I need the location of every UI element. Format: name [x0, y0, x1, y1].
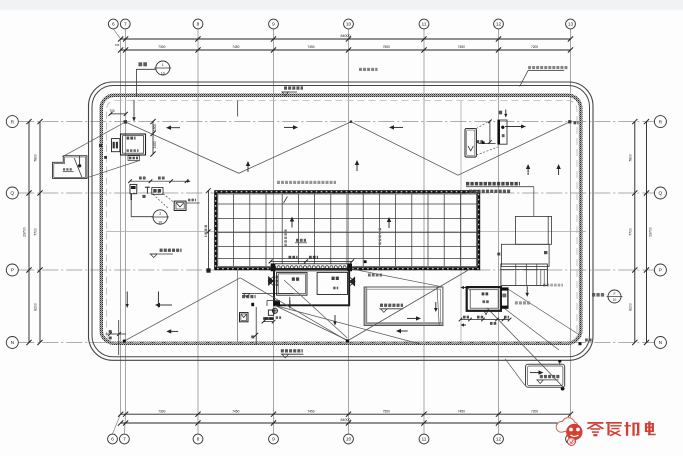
mid horizontal joint line: [106, 231, 586, 233]
grid bubble 7 top: [120, 19, 130, 29]
room labels: [276, 276, 339, 290]
detached rect arrow: [530, 372, 539, 374]
grid bubble 11 bottom: [419, 434, 429, 444]
elevation 6.550 top: [284, 86, 287, 89]
svg-text:2: 2: [159, 212, 161, 216]
svg-text:7700: 7700: [629, 228, 633, 236]
watermark text: [587, 421, 655, 436]
callout circle top-left: [154, 61, 171, 76]
callout leader top-left: [136, 69, 155, 96]
grid bubble 10 bottom: [344, 434, 354, 444]
bottom ridge left: [124, 278, 240, 341]
svg-text:7450: 7450: [307, 409, 314, 413]
detached cooling rect: [526, 364, 565, 387]
svg-text:12: 12: [496, 22, 502, 28]
top center note: [359, 68, 362, 71]
diagonal upper room SE: [508, 289, 578, 334]
equip text right: [543, 284, 546, 287]
bottom left dim: [106, 320, 127, 355]
svg-text:6: 6: [111, 437, 114, 443]
grid bubble Q left: [6, 187, 18, 199]
small text above water tank: [368, 274, 371, 277]
building outline second: [92, 86, 590, 357]
fan line from room corner 2: [275, 306, 349, 342]
leader arrow down near grid7: [133, 100, 135, 117]
down arrow x335: [334, 315, 336, 322]
junction dot bottom-right: [579, 342, 582, 345]
skylight note 1:50: [295, 239, 307, 243]
svg-text:F: F: [613, 292, 615, 296]
grid bubble N left: [6, 337, 18, 349]
parapet note top-right: [520, 66, 568, 87]
skylight inner frame: [218, 194, 477, 266]
grid bubble N right: [654, 337, 666, 349]
vertical line bottom mid: [251, 307, 258, 345]
leader skylight to tank corner: [352, 269, 441, 287]
arrow small mid: [160, 304, 172, 306]
text exhaust fan label: [139, 62, 143, 66]
drain box label: [188, 199, 190, 202]
svg-text:11: 11: [422, 22, 427, 28]
elevator room door arcs: [482, 311, 491, 315]
inner dashed boundary: [107, 101, 578, 343]
svg-text:7550: 7550: [383, 409, 390, 413]
svg-text:N: N: [11, 340, 15, 346]
small text near R right: [574, 121, 577, 124]
right rooms dim: [459, 316, 512, 325]
grid bubble 13 top: [566, 19, 576, 29]
svg-text:7300: 7300: [158, 45, 165, 49]
svg-text:84000: 84000: [341, 418, 351, 422]
leader to stair box: [533, 187, 535, 217]
vent pipe text right: [592, 290, 623, 303]
dashed leader 1: [163, 194, 175, 203]
room dim drop: [288, 297, 292, 309]
svg-text:Q: Q: [10, 191, 14, 197]
svg-text:7: 7: [123, 437, 126, 443]
svg-text:23700: 23700: [649, 227, 653, 237]
small equip rect A: [130, 184, 137, 200]
horizontal grid lines: [18, 122, 654, 343]
callout leader mid-left: [131, 200, 153, 217]
canopy leader 2: [87, 161, 140, 178]
slope arrow left: [171, 127, 180, 129]
vent right top-right: [498, 120, 507, 144]
box A upper: [515, 216, 551, 244]
canopy leader 1: [62, 122, 125, 157]
svg-text:7550: 7550: [383, 45, 390, 49]
svg-text:P: P: [11, 268, 14, 274]
junction dot skylight bottom: [364, 260, 367, 263]
fan line from room corner 1: [275, 306, 420, 345]
grid bubble 7 bottom: [120, 434, 130, 444]
junction dot peak: [350, 121, 352, 123]
svg-text:23700: 23700: [23, 227, 27, 237]
diagonal elev room to detached: [467, 287, 563, 387]
junction dot top-left: [124, 120, 127, 123]
water tank roof rect: [364, 287, 443, 326]
grid bubble 13 bottom: [566, 434, 576, 444]
elevation 5.150 bottom: [281, 349, 284, 352]
svg-text:700: 700: [109, 109, 115, 113]
vent stub below band: [237, 101, 239, 117]
svg-text:8200: 8200: [34, 303, 38, 311]
svg-text:6: 6: [112, 22, 115, 28]
dot at detached: [561, 387, 564, 390]
stair cluster small: [263, 301, 280, 320]
T mark: [145, 187, 150, 194]
top dimension texts: [115, 34, 539, 49]
dashed leader 2: [153, 194, 169, 208]
box B above stairs: [497, 244, 549, 266]
down leader 2: [157, 292, 159, 305]
svg-text:84000: 84000: [341, 34, 351, 38]
svg-text:7800: 7800: [34, 154, 38, 162]
arrow left bottom: [171, 330, 178, 332]
vent top label: [499, 110, 508, 118]
canopy dim: [63, 168, 74, 172]
label box 1:25: [128, 156, 140, 161]
svg-text:7450: 7450: [307, 45, 314, 49]
skylight slash mark top: [284, 196, 288, 203]
grid bubble 6 top: [108, 19, 118, 29]
fan box mid-left: [152, 188, 163, 195]
svg-text:7: 7: [124, 22, 127, 28]
grid bubble P right: [654, 264, 666, 276]
grid bubble 10 top: [344, 19, 354, 29]
dim 700 top-left: [109, 109, 128, 116]
elevation 5.150 mid: [242, 295, 245, 298]
vent arrow right: [505, 126, 521, 128]
callout circle mid-left: [152, 210, 170, 225]
stair down arrow: [526, 286, 528, 293]
svg-text:9: 9: [272, 22, 275, 28]
svg-text:1500: 1500: [153, 124, 157, 131]
louver bowtie right: [349, 277, 355, 287]
skylight up arrow 1: [291, 222, 293, 228]
top dimension lines: [118, 36, 573, 52]
svg-text:7700: 7700: [34, 228, 38, 236]
vent dim vertical: [477, 120, 496, 145]
skylight mullion grid: [218, 194, 477, 266]
skylight outer border: [216, 192, 479, 269]
svg-text:7450: 7450: [458, 45, 465, 49]
skylight left dim line: [205, 188, 211, 272]
vertical wall line x237: [237, 269, 239, 342]
vertical joint line: [460, 101, 462, 342]
small fan box top-left: [112, 139, 120, 152]
building outline outer: [89, 82, 594, 360]
left dimension lines: [26, 119, 42, 345]
bottom valley to skylight corner: [347, 269, 470, 341]
bottom dimension lines: [118, 412, 573, 426]
svg-text:10: 10: [161, 72, 165, 76]
up arrow right2: [558, 169, 560, 175]
svg-text:P: P: [659, 268, 662, 274]
exhaust shaft room top-left: [121, 134, 146, 155]
room corner block: [274, 301, 280, 306]
leader into detached left: [505, 359, 525, 386]
watermark logo cloud: [556, 418, 582, 446]
svg-text:10: 10: [346, 437, 352, 443]
detached connector: [558, 360, 561, 364]
svg-text:R: R: [11, 119, 15, 125]
left canopy outer: [53, 156, 87, 179]
svg-text:7450: 7450: [232, 45, 239, 49]
grid bubble 11 top: [419, 19, 429, 29]
svg-text:Q: Q: [659, 191, 663, 197]
drain box leader right: [186, 202, 200, 204]
down leader 1: [126, 292, 128, 305]
top margin strip: [0, 0, 683, 9]
water tank small arrow down: [435, 302, 437, 308]
svg-text:10: 10: [346, 22, 352, 28]
plus marker below rooms: [272, 308, 281, 319]
up arrow right: [527, 169, 529, 175]
vent dashed leader 1: [476, 121, 490, 129]
svg-text:7200: 7200: [531, 45, 538, 49]
canopy drop bar: [78, 156, 81, 167]
envelope drain bottom-left: [240, 313, 249, 322]
skylight bottom dim: [269, 256, 354, 264]
grid bubble Q right: [654, 187, 666, 199]
small 8 mark: [142, 195, 145, 198]
pump room label: [515, 301, 518, 304]
left canopy inner: [54, 157, 86, 177]
svg-text:7450: 7450: [232, 409, 239, 413]
svg-text:N: N: [659, 340, 663, 346]
louver bowtie left: [268, 276, 274, 286]
svg-text:2400: 2400: [153, 141, 157, 148]
grid bubble 9 bottom: [269, 434, 279, 444]
steep line in tank: [437, 287, 439, 326]
leader dot a: [99, 144, 102, 147]
roof ridge zigzag top: [125, 122, 569, 175]
left dimension texts: [23, 154, 38, 311]
skylight top small dim: [128, 177, 190, 184]
bottom ridge right: [240, 278, 347, 341]
svg-text:8: 8: [197, 437, 200, 443]
skylight bottom circle strip: [271, 264, 352, 271]
svg-text:12: 12: [496, 437, 502, 443]
elevation 5.100 detached: [540, 375, 543, 378]
canopy diagonal: [74, 158, 82, 177]
junction dot bottom-left: [123, 340, 126, 343]
narrow shaft room: [501, 288, 508, 308]
svg-text:7450: 7450: [458, 409, 465, 413]
junction dot bottom-mid: [346, 339, 349, 342]
skylight up arrow 2: [388, 222, 390, 228]
up arrow valley left: [247, 166, 249, 172]
leader dot b: [104, 156, 107, 159]
svg-text:10: 10: [613, 298, 617, 302]
grid bubble R left: [6, 116, 18, 128]
right dimension lines: [632, 119, 649, 345]
svg-text:1: 1: [162, 63, 164, 67]
grid bubble R right: [654, 116, 666, 128]
skylight title text right: [466, 182, 534, 193]
slope arrow mid-left: [284, 126, 293, 128]
vertical grid lines: [113, 29, 571, 434]
diagonal from label: [284, 280, 347, 338]
svg-text:13: 13: [568, 22, 574, 28]
vent left top-right: [465, 129, 476, 158]
grid bubble 8 top: [193, 19, 203, 29]
machine room right inner: [317, 272, 347, 294]
left tick arrows x461: [461, 286, 467, 327]
blob below envelope: [251, 303, 254, 306]
grid bubble 12 top: [494, 19, 504, 29]
machine rooms outer: [274, 269, 349, 305]
rain drain box mid: [174, 201, 186, 210]
vertical dim line at grid7 left: [150, 119, 156, 157]
svg-text:7800: 7800: [629, 154, 633, 162]
grid bubble 9 top: [269, 19, 279, 29]
water tank arrow right: [407, 317, 416, 319]
vent dashed leader 2: [476, 147, 497, 155]
grid bubble 8 bottom: [193, 434, 203, 444]
arrow below water tank: [401, 330, 408, 332]
grid bubble 6 bottom: [108, 434, 118, 444]
right dimension texts: [629, 154, 653, 311]
svg-text:8200: 8200: [629, 303, 633, 311]
junction dot top-right: [568, 120, 571, 123]
bottom dimension texts: [158, 409, 538, 422]
grid bubble 12 bottom: [494, 434, 504, 444]
elevation 5.100 water tank: [380, 304, 383, 307]
small dim below rooms: [262, 317, 276, 323]
skylight rotated note 2: [379, 228, 382, 230]
corner dim smudge: [585, 339, 588, 342]
elevator machine room: [467, 287, 501, 311]
stair ladder: [501, 264, 548, 286]
svg-text:8: 8: [197, 22, 200, 28]
svg-text:9: 9: [272, 437, 275, 443]
svg-text:700: 700: [115, 43, 120, 47]
up arrow mid: [356, 165, 358, 171]
machine room left inner: [277, 272, 307, 295]
elevation 5.150 left: [160, 249, 163, 252]
grid bubble P left: [6, 264, 18, 276]
diagonal room corner SE: [505, 309, 560, 351]
skylight rotated note 1: [284, 230, 287, 232]
svg-text:10: 10: [158, 221, 162, 225]
skylight title text left: [277, 181, 280, 184]
svg-text:7300: 7300: [158, 409, 165, 413]
slope arrow mid-right: [394, 126, 403, 128]
svg-text:11: 11: [422, 437, 427, 443]
skylight border tick pattern: [216, 192, 479, 269]
svg-text:R: R: [659, 119, 663, 125]
svg-text:7200: 7200: [531, 409, 538, 413]
